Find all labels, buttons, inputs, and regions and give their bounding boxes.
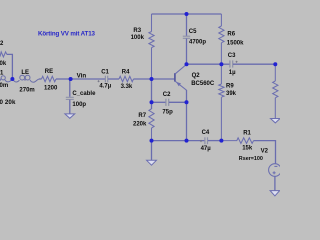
transistor Q2 (152, 64, 187, 90)
polarity mark C1 (98, 80, 100, 82)
resistor R8 load (273, 64, 278, 118)
svg-text:C4: C4 (202, 130, 210, 136)
wire R6 node to C3 (221, 63, 229, 65)
wire R1 to V2 (254, 141, 276, 164)
node collector C5 junction (185, 62, 189, 66)
ground main (147, 160, 157, 165)
svg-text:V2: V2 (261, 148, 269, 154)
svg-text:R7: R7 (138, 113, 146, 119)
svg-text:C1: C1 (101, 70, 109, 76)
wire C4 to supply node (208, 140, 222, 142)
ground V2 (270, 191, 280, 196)
svg-text:R3: R3 (133, 28, 141, 34)
inductor LE (13, 75, 39, 82)
wire base node down (151, 79, 153, 109)
svg-text:C3: C3 (228, 53, 236, 59)
svg-text:C5: C5 (189, 29, 197, 35)
node emitter bottom junction (185, 139, 189, 143)
svg-text:R6: R6 (227, 32, 235, 38)
capacitor C5 (183, 14, 190, 64)
resistor R7 (149, 109, 154, 141)
resistor R4 (119, 76, 134, 81)
wire C3 to output node (233, 63, 275, 65)
svg-text:270m: 270m (19, 87, 34, 93)
wire ground stub (151, 141, 153, 161)
inductor L1 (cut off at left edge) (0, 76, 12, 82)
capacitor C_cable (66, 97, 74, 99)
svg-text:R4: R4 (122, 70, 130, 76)
node collector R6 junction (219, 62, 223, 66)
resistor R9 (219, 64, 224, 140)
resistor R6 (219, 14, 224, 64)
svg-text:1500k: 1500k (227, 40, 244, 46)
wire RE to Vin (56, 78, 71, 80)
resistor RE (42, 76, 57, 81)
wire R4 to base node (134, 78, 152, 80)
node C2 right junction (185, 100, 189, 104)
svg-text:R1: R1 (243, 130, 251, 136)
node rail C5 tap (185, 12, 189, 16)
node supply junction (219, 139, 223, 143)
svg-text:1200: 1200 (44, 85, 58, 91)
top feedback rail (152, 13, 222, 15)
wire bottom rail left (152, 140, 205, 142)
svg-text:1µ: 1µ (229, 70, 236, 76)
ground R8 load (271, 119, 281, 123)
svg-text:3.3k: 3.3k (121, 84, 133, 90)
capacitor C2 (166, 99, 169, 106)
svg-text:Q2: Q2 (192, 73, 201, 79)
wire C1 to R4 (108, 78, 119, 80)
resistor R3 (149, 14, 154, 79)
svg-text:C2: C2 (163, 92, 171, 98)
resistor R1 (221, 138, 253, 144)
svg-text:LE: LE (21, 70, 29, 76)
svg-text:RE: RE (45, 69, 53, 75)
wire Vin to C1 (71, 78, 105, 80)
svg-text:4700p: 4700p (189, 40, 206, 46)
svg-text:100k: 100k (131, 35, 145, 41)
polarity mark C3 (236, 61, 238, 63)
wire R2 to junction (7, 54, 13, 79)
node junction left (10, 77, 14, 81)
wire V2 to ground (274, 176, 276, 190)
polarity mark C4 (200, 140, 202, 142)
voltage source V2 (269, 164, 282, 177)
svg-text:0m: 0m (0, 83, 8, 89)
svg-text:Körting VV mit AT13: Körting VV mit AT13 (38, 31, 96, 38)
node ground rail junction (150, 139, 154, 143)
capacitor C3 (230, 60, 233, 67)
svg-text:220k: 220k (133, 121, 147, 127)
node output (273, 62, 277, 66)
wire C2 right (169, 101, 187, 103)
svg-text:15k: 15k (242, 146, 253, 152)
ground C_cable (65, 114, 75, 118)
svg-text:4.7µ: 4.7µ (99, 84, 111, 90)
node base junction (150, 77, 154, 81)
svg-text:0k: 0k (0, 61, 7, 67)
capacitor C4 (205, 137, 208, 144)
resistor R2 (cut off at left edge) (0, 52, 7, 57)
wire C_cable to ground (69, 100, 71, 114)
wire emitter down (186, 90, 188, 141)
svg-text:75p: 75p (162, 109, 173, 115)
wire collector row (187, 63, 222, 65)
svg-text:Rser=100: Rser=100 (239, 156, 263, 162)
svg-text:47µ: 47µ (201, 146, 212, 152)
node Vin (69, 77, 73, 81)
svg-text:BC560C: BC560C (191, 81, 215, 87)
capacitor C1 (105, 76, 107, 83)
wire Vin down to C_cable (69, 79, 71, 97)
svg-text:100p: 100p (72, 102, 86, 108)
svg-text:C_cable: C_cable (72, 91, 96, 97)
svg-text:R9: R9 (226, 83, 234, 89)
node C2 left junction (150, 100, 154, 104)
wire LE to RE (39, 78, 42, 80)
wire C2 left (152, 101, 166, 103)
svg-text:39k: 39k (226, 91, 237, 97)
svg-text:0 20k: 0 20k (0, 99, 16, 106)
